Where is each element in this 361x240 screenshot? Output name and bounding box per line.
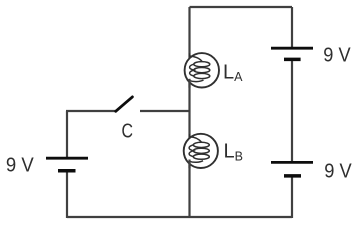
wire bottom horizontal — [67, 216, 292, 218]
wire left branch upper — [66, 111, 68, 157]
wire switch left segment — [66, 110, 116, 112]
node junction switch-middle branch — [189, 110, 191, 112]
wire top horizontal — [190, 6, 293, 8]
wire right branch lower — [291, 176, 293, 218]
wire right branch middle — [291, 60, 293, 161]
svg-text:9 V: 9 V — [324, 161, 352, 183]
lamp LB — [184, 134, 218, 168]
wire right branch upper — [291, 7, 293, 47]
wire switch right segment — [140, 110, 191, 112]
battery right top 9V positive plate — [271, 47, 313, 50]
svg-text:C: C — [122, 121, 134, 143]
battery left 9V negative plate — [58, 169, 76, 173]
wire middle branch vertical — [188, 7, 190, 217]
wire left branch lower — [66, 171, 68, 218]
svg-text:9 V: 9 V — [323, 45, 351, 67]
svg-text:9 V: 9 V — [6, 154, 34, 176]
switch C blade — [116, 97, 133, 111]
battery right bottom 9V positive plate — [271, 161, 313, 164]
battery right bottom 9V negative plate — [284, 174, 301, 178]
battery left 9V positive plate — [46, 157, 88, 160]
lamp LA — [185, 53, 219, 88]
battery right top 9V negative plate — [284, 58, 301, 62]
